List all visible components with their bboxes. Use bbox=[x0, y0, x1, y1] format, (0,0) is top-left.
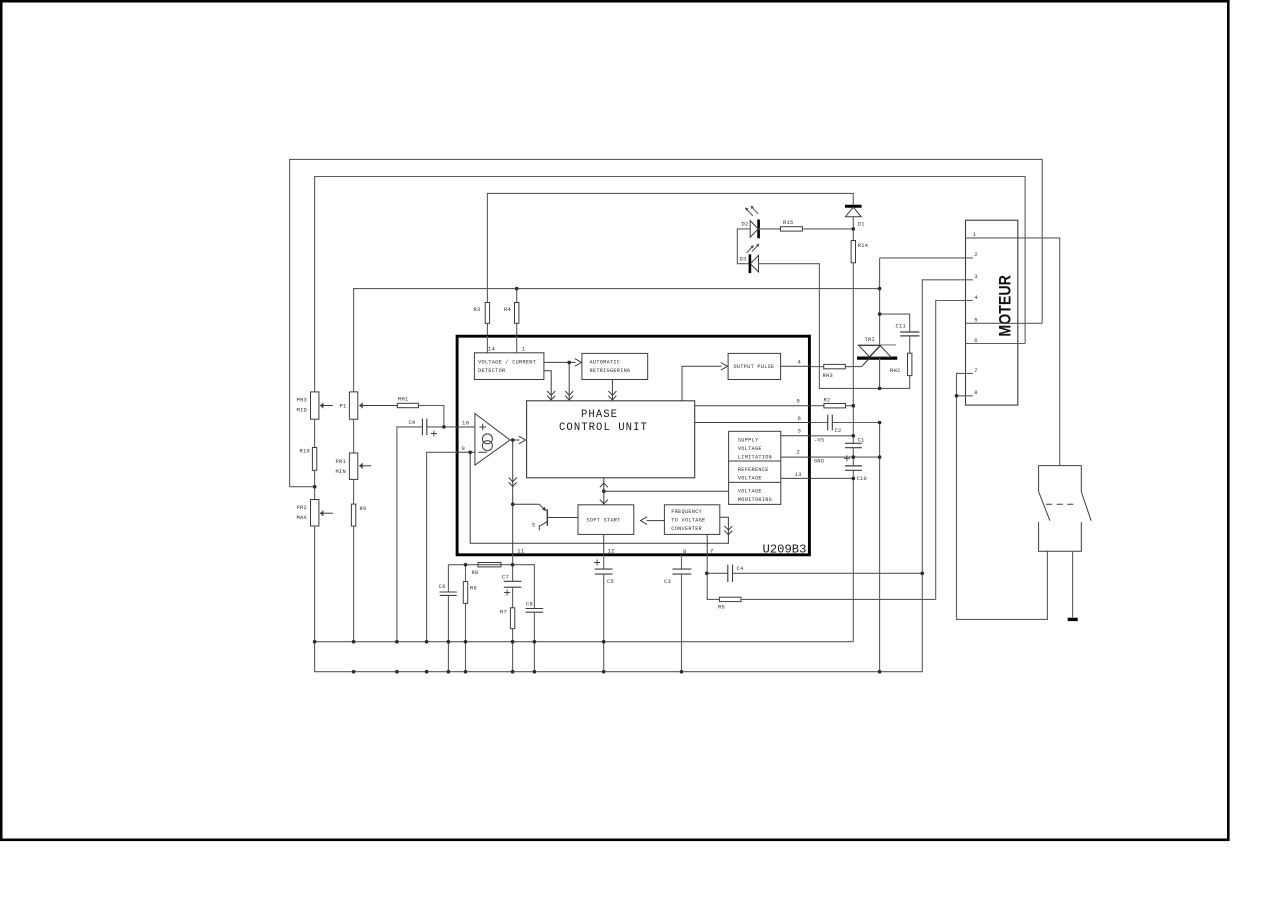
wire pin 9 down to rail bbox=[427, 452, 457, 641]
wire freq to soft start bbox=[647, 520, 665, 522]
box soft start bbox=[578, 505, 634, 535]
resistor R10 bbox=[300, 448, 317, 471]
svg-text:C5: C5 bbox=[607, 579, 614, 585]
capacitor C3 bbox=[664, 569, 691, 585]
svg-text:RH2: RH2 bbox=[890, 368, 900, 374]
wire C5 down to rails bbox=[603, 574, 605, 672]
capacitor C11 bbox=[896, 324, 920, 336]
IC U209B3 box bbox=[457, 336, 809, 555]
arrow into retriggering bbox=[575, 359, 582, 367]
svg-text:12: 12 bbox=[608, 548, 615, 555]
svg-text:C1: C1 bbox=[858, 438, 865, 444]
switch SW bbox=[1039, 466, 1092, 552]
box voltage/current detector bbox=[474, 353, 544, 380]
pin 10 stub bbox=[457, 426, 475, 428]
wire PR1 to R9 bbox=[353, 479, 355, 504]
wire pins 7-8 down to switch return bbox=[957, 396, 1048, 620]
wire phase unit to soft start link bbox=[603, 478, 605, 505]
capacitor C4 bbox=[728, 565, 744, 582]
svg-text:MID: MID bbox=[297, 408, 307, 414]
svg-text:TRI: TRI bbox=[865, 337, 875, 343]
svg-text:7: 7 bbox=[710, 548, 714, 555]
wire pin 12 down bbox=[603, 555, 605, 569]
wire top loop 3 bbox=[487, 193, 853, 302]
wire D3 anode down to gate line bbox=[759, 264, 910, 389]
potentiometer PR1 MIN bbox=[336, 453, 372, 479]
transistor S bbox=[532, 504, 578, 530]
svg-text:TO VOLTAGE: TO VOLTAGE bbox=[671, 518, 705, 524]
wire C7 to R7 bbox=[512, 587, 514, 608]
svg-text:FREQUENCY: FREQUENCY bbox=[671, 509, 702, 515]
wire R6 down to rails bbox=[465, 603, 467, 671]
svg-text:R10: R10 bbox=[300, 449, 310, 455]
svg-text:SOFT START: SOFT START bbox=[587, 518, 621, 524]
svg-text:R9: R9 bbox=[360, 506, 367, 512]
wire pin 7 down bbox=[707, 555, 719, 599]
wire R15 to D1 node bbox=[802, 228, 853, 230]
wire R4 top lead bbox=[516, 289, 518, 303]
wire pin9 feedback loop bbox=[470, 452, 728, 543]
wire pin 11 down bbox=[512, 555, 514, 581]
svg-text:MONITORING: MONITORING bbox=[738, 497, 772, 503]
capacitor C7 bbox=[502, 575, 521, 596]
wire C9 left down to rail bbox=[397, 427, 423, 642]
wire ground rail 1 bbox=[315, 641, 854, 643]
wire C1 to GND node bbox=[852, 448, 854, 466]
svg-text:R14: R14 bbox=[858, 243, 868, 249]
wire triac MT2 up bbox=[879, 314, 881, 345]
resistor RH2 bbox=[890, 353, 912, 375]
wire pin6 to C2 bbox=[811, 422, 828, 424]
resistor R5 bbox=[718, 597, 741, 610]
svg-text:R8: R8 bbox=[472, 570, 479, 576]
wire pin3 -VS bbox=[811, 435, 854, 437]
svg-text:6: 6 bbox=[974, 337, 978, 344]
svg-text:D3: D3 bbox=[740, 257, 747, 263]
connector MOTEUR box bbox=[966, 220, 1018, 405]
svg-text:MAX: MAX bbox=[297, 515, 308, 521]
svg-text:P1: P1 bbox=[340, 404, 347, 410]
svg-text:10: 10 bbox=[462, 420, 470, 427]
wire C9 to pin 10 bbox=[427, 426, 457, 428]
svg-text:3: 3 bbox=[974, 273, 978, 280]
wire C10 down to rail1 bbox=[852, 470, 854, 641]
svg-text:CONVERTER: CONVERTER bbox=[671, 526, 702, 532]
box frequency to voltage converter bbox=[664, 505, 719, 535]
wire RH1 to pin10 node bbox=[419, 406, 444, 427]
wire motor pin1 to switch bbox=[966, 238, 1060, 466]
resistor R7 bbox=[500, 608, 515, 629]
resistor RH3 bbox=[823, 364, 846, 379]
svg-text:VOLTAGE: VOLTAGE bbox=[738, 446, 762, 452]
wire C4 to motor pin3 line bbox=[733, 572, 923, 574]
wire top loop 2 bbox=[315, 177, 1026, 392]
svg-text:GND: GND bbox=[814, 459, 824, 465]
wire R7 down to rails bbox=[512, 629, 514, 672]
wire C2 to node bbox=[832, 422, 879, 424]
wire top loop 1 bbox=[290, 159, 1043, 486]
wire phase unit to output pulse bbox=[682, 366, 722, 401]
op-amp triangle bbox=[475, 414, 510, 466]
wire PR2 down to rail bbox=[314, 526, 316, 642]
svg-text:VOLTAGE: VOLTAGE bbox=[738, 475, 762, 481]
wire detector output 2 bbox=[544, 371, 551, 400]
svg-text:8: 8 bbox=[683, 548, 687, 555]
wire freq to pin 7 bbox=[706, 534, 708, 555]
potentiometer PR2 MAX bbox=[297, 500, 333, 527]
svg-text:D2: D2 bbox=[742, 222, 749, 228]
wire pin 8 down bbox=[681, 555, 683, 569]
svg-text:-VS: -VS bbox=[814, 437, 824, 443]
arrow double down opamp branch bbox=[509, 478, 517, 487]
svg-text:4: 4 bbox=[798, 359, 802, 366]
wire motor pin2 branch bbox=[879, 258, 881, 314]
wire soft start branch bbox=[513, 503, 539, 505]
wire R2 to node bbox=[846, 405, 854, 407]
svg-text:VOLTAGE: VOLTAGE bbox=[738, 488, 762, 494]
svg-text:LIMITATION: LIMITATION bbox=[738, 455, 772, 461]
wire PR3 to R10 bbox=[314, 419, 316, 447]
svg-text:C11: C11 bbox=[896, 324, 906, 330]
svg-text:PR1: PR1 bbox=[336, 459, 346, 465]
polarity plus C10 bbox=[844, 455, 850, 461]
svg-text:AUTOMATIC: AUTOMATIC bbox=[590, 359, 621, 365]
pin 4 stub bbox=[781, 365, 811, 367]
svg-text:8: 8 bbox=[974, 389, 978, 396]
resistor R14 bbox=[851, 241, 868, 263]
wire mains line bbox=[354, 289, 880, 392]
wire retriggering down to phase unit bbox=[611, 380, 613, 401]
resistor R6 bbox=[463, 582, 477, 604]
arrow into output pulse bbox=[721, 363, 728, 371]
svg-text:PR2: PR2 bbox=[297, 505, 307, 511]
diode D1 bbox=[845, 206, 865, 227]
capacitor C6 bbox=[439, 584, 457, 595]
wire detector to retriggering bbox=[544, 361, 576, 363]
resistor R3 bbox=[474, 303, 490, 324]
svg-text:REFERENCE: REFERENCE bbox=[738, 467, 769, 473]
wire R3 to pin 14 bbox=[486, 323, 488, 337]
LED D2 bbox=[742, 206, 759, 238]
svg-text:9: 9 bbox=[462, 445, 466, 452]
resistor R8 bbox=[472, 563, 502, 576]
capacitor C10 bbox=[845, 466, 867, 482]
wire motor pin3 bbox=[922, 280, 973, 574]
resistor R15 bbox=[780, 220, 802, 231]
svg-text:R3: R3 bbox=[474, 307, 481, 313]
pin 2 stub bbox=[781, 456, 811, 458]
svg-text:11: 11 bbox=[517, 548, 525, 555]
svg-text:C3: C3 bbox=[664, 579, 671, 585]
arrow up into phase unit bbox=[600, 483, 608, 487]
box phase control unit bbox=[527, 401, 695, 478]
wire phase to pin5 bbox=[695, 405, 811, 407]
wire switch to ground bbox=[1072, 551, 1074, 617]
svg-text:PHASE: PHASE bbox=[581, 409, 618, 421]
wire PR2 node link bbox=[290, 486, 315, 488]
svg-text:C8: C8 bbox=[526, 602, 533, 608]
wire node column down to rail2 bbox=[879, 423, 881, 672]
svg-text:4: 4 bbox=[974, 294, 978, 301]
svg-text:R5: R5 bbox=[718, 605, 725, 611]
svg-text:R4: R4 bbox=[504, 307, 511, 313]
wire motor pin8 bbox=[957, 395, 973, 397]
svg-text:MIN: MIN bbox=[336, 469, 346, 475]
wire R6 branch bbox=[465, 565, 467, 582]
resistor RH1 bbox=[397, 397, 418, 408]
resistor R2 bbox=[824, 398, 846, 408]
wire motor pin2 bbox=[880, 257, 973, 259]
wire C6 branch bbox=[447, 565, 449, 592]
wire motor pin5 bbox=[966, 322, 1043, 324]
arrow double into phase unit b bbox=[547, 391, 555, 400]
triac TRI bbox=[857, 337, 897, 367]
pin 13 stub bbox=[781, 477, 811, 479]
capacitor C8 bbox=[526, 602, 544, 613]
pin 3 stub bbox=[781, 435, 811, 437]
wire D2 to R15 bbox=[759, 228, 781, 230]
wire R4 to pin 1 bbox=[516, 323, 518, 337]
svg-text:U209B3: U209B3 bbox=[763, 543, 807, 557]
svg-text:OUTPUT PULSE: OUTPUT PULSE bbox=[734, 364, 775, 370]
svg-text:MOTEUR: MOTEUR bbox=[996, 275, 1014, 336]
box reference voltage bbox=[729, 461, 781, 482]
wire C6 down to rails bbox=[447, 595, 449, 671]
svg-text:C10: C10 bbox=[857, 476, 867, 482]
resistor R4 bbox=[504, 303, 519, 324]
svg-text:13: 13 bbox=[795, 471, 802, 478]
arrow double down freq loop bbox=[724, 526, 732, 535]
wire phase to pin6 bbox=[695, 422, 811, 424]
wire R10 to PR2 bbox=[314, 470, 316, 499]
box voltage monitoring bbox=[729, 482, 781, 504]
wire C11 branch bbox=[880, 314, 910, 332]
svg-text:14: 14 bbox=[488, 346, 496, 353]
capacitor C2 bbox=[828, 415, 842, 434]
svg-text:C6: C6 bbox=[439, 584, 446, 590]
wire motor pin7 jumper bbox=[957, 373, 973, 395]
junction dots bbox=[313, 227, 959, 673]
capacitor C1 bbox=[845, 438, 864, 448]
wire P1 to PR1 bbox=[353, 419, 355, 453]
wire pin13 to C10 bbox=[811, 477, 854, 479]
arrow into phase unit left bbox=[519, 436, 526, 444]
svg-text:6: 6 bbox=[798, 415, 802, 422]
wire R14 down to C1 bbox=[852, 263, 854, 444]
resistor R9 bbox=[351, 504, 366, 526]
svg-text:C2: C2 bbox=[835, 428, 842, 434]
arrow into soft start bbox=[641, 517, 648, 525]
wire soft start to pin 12 bbox=[603, 534, 605, 555]
wire pin5 to R2 bbox=[811, 405, 824, 407]
svg-text:PR3: PR3 bbox=[297, 398, 307, 404]
svg-text:C9: C9 bbox=[409, 420, 416, 426]
svg-text:DETECTOR: DETECTOR bbox=[478, 368, 505, 374]
svg-text:1: 1 bbox=[522, 346, 526, 353]
potentiometer PR3 MID bbox=[297, 392, 333, 419]
wire pin11 node line bbox=[448, 565, 534, 609]
svg-text:5: 5 bbox=[797, 398, 801, 405]
svg-text:RH1: RH1 bbox=[398, 397, 408, 403]
svg-text:D1: D1 bbox=[858, 222, 865, 228]
pin 14 stub bbox=[486, 336, 488, 353]
wire opamp output to phase unit bbox=[510, 439, 520, 441]
svg-text:7: 7 bbox=[974, 367, 978, 374]
wire gate to RH3 bbox=[845, 366, 861, 368]
wire monitoring link bbox=[604, 490, 729, 492]
ground bbox=[1068, 618, 1078, 621]
potentiometer P1 bbox=[340, 392, 398, 419]
box supply voltage limitation bbox=[729, 431, 781, 461]
svg-text:RETRIGGERING: RETRIGGERING bbox=[590, 368, 631, 374]
wire ground rail 2 bbox=[315, 573, 923, 671]
pin 9 stub bbox=[457, 451, 475, 453]
pin 1 stub bbox=[516, 336, 518, 353]
svg-text:R7: R7 bbox=[500, 610, 507, 616]
svg-text:CONTROL UNIT: CONTROL UNIT bbox=[559, 422, 648, 434]
wire R9 down to rail bbox=[353, 526, 355, 642]
wire D1 to R14 bbox=[852, 217, 854, 241]
box output pulse bbox=[728, 353, 781, 379]
wire C8 down to rails bbox=[533, 612, 535, 672]
wire D2 anode to D3 cathode bbox=[737, 229, 750, 264]
arrow double into phase unit a bbox=[565, 391, 573, 400]
arrow double into phase unit c bbox=[608, 391, 616, 400]
wire pin7 to C4 bbox=[707, 572, 728, 574]
svg-text:R2: R2 bbox=[824, 398, 831, 404]
wire R5 to motor pin4 line bbox=[741, 598, 936, 600]
arrow down into soft start bbox=[600, 500, 608, 504]
capacitor C9 bbox=[409, 419, 437, 437]
LED D3 bbox=[740, 244, 760, 273]
svg-text:RH3: RH3 bbox=[823, 373, 833, 379]
svg-text:2: 2 bbox=[974, 251, 978, 258]
svg-text:C7: C7 bbox=[502, 575, 509, 581]
svg-text:1: 1 bbox=[973, 231, 977, 238]
wire motor pin6 bbox=[966, 343, 1026, 345]
svg-text:R6: R6 bbox=[470, 586, 477, 592]
box automatic retriggering bbox=[582, 353, 648, 379]
wire branch down to phase unit bbox=[568, 362, 570, 400]
capacitor C5 bbox=[594, 560, 614, 586]
wire motor pin4 bbox=[936, 301, 973, 600]
wire C3 down to rail2 bbox=[681, 574, 683, 672]
wire C11 to RH2 bbox=[909, 336, 911, 353]
svg-text:2: 2 bbox=[797, 449, 801, 456]
wire pin4 to RH3 bbox=[811, 366, 824, 368]
svg-text:5: 5 bbox=[974, 317, 978, 324]
svg-text:VOLTAGE / CURRENT: VOLTAGE / CURRENT bbox=[478, 359, 536, 365]
wire triac MT1 down bbox=[879, 358, 881, 388]
svg-text:3: 3 bbox=[798, 428, 802, 435]
wire pin2 GND bbox=[811, 456, 880, 458]
wire opamp output down to pin 11 bbox=[512, 440, 514, 555]
svg-text:S: S bbox=[532, 522, 536, 529]
svg-text:R15: R15 bbox=[783, 220, 793, 226]
svg-text:C4: C4 bbox=[737, 566, 744, 572]
svg-text:SUPPLY: SUPPLY bbox=[738, 437, 759, 443]
